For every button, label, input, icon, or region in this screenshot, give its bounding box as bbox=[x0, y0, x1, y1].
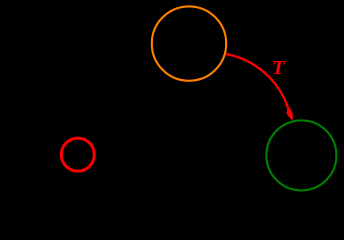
node C: green circle bbox=[266, 120, 336, 190]
node A: orange circle bbox=[152, 6, 226, 80]
node B: red small circle bbox=[61, 138, 94, 171]
wire: red curved arrow shaft from orange circle to green circle bbox=[226, 54, 288, 108]
arrowhead of transition arrow bbox=[286, 108, 293, 121]
svg-text:T: T bbox=[272, 57, 285, 79]
